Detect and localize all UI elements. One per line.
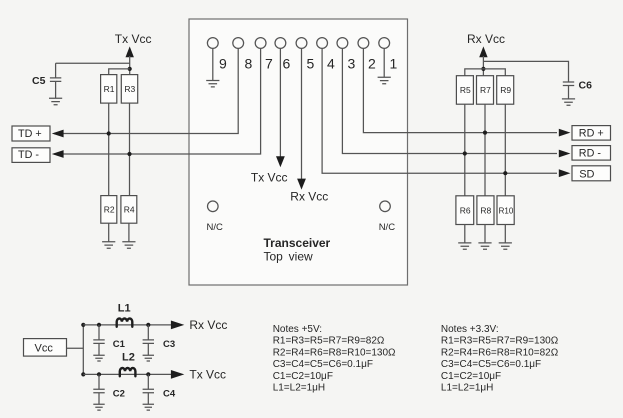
svg-text:9: 9 — [219, 56, 227, 72]
resistor R7 — [477, 76, 494, 105]
wire Rx rail — [83, 324, 172, 326]
svg-text:L1=L2=1μH: L1=L2=1μH — [273, 382, 325, 393]
pin 9 circle — [207, 38, 218, 49]
svg-text:C3: C3 — [163, 339, 175, 350]
wire Rx Vcc vertical — [482, 56, 484, 76]
port box RD- — [572, 146, 611, 161]
resistor R6 — [456, 196, 474, 225]
svg-text:RD +: RD + — [579, 128, 604, 140]
wire R2 to ground — [108, 223, 110, 242]
svg-text:C5: C5 — [32, 75, 46, 87]
svg-text:R2: R2 — [104, 205, 115, 215]
svg-text:Tx Vcc: Tx Vcc — [189, 367, 226, 381]
arrow Rx Vcc out — [171, 321, 184, 330]
wire R1 to R2 — [108, 103, 110, 196]
inductor L2 — [120, 368, 136, 376]
svg-text:3: 3 — [348, 56, 356, 72]
arrow into RD- — [559, 150, 571, 158]
svg-text:1: 1 — [390, 56, 398, 72]
pin 4 circle — [317, 38, 328, 49]
capacitor C3 — [147, 325, 149, 340]
svg-text:R9: R9 — [500, 85, 511, 95]
svg-text:Rx Vcc: Rx Vcc — [189, 318, 227, 332]
port box SD — [572, 166, 611, 181]
svg-text:R2=R4=R6=R8=R10=82Ω: R2=R4=R6=R8=R10=82Ω — [441, 347, 559, 358]
pin 8 circle — [233, 38, 244, 49]
capacitor C2 — [98, 374, 100, 389]
svg-text:Top view: Top view — [264, 249, 314, 263]
wire pin 3 to RD- — [342, 48, 557, 153]
svg-text:Tx Vcc: Tx Vcc — [115, 32, 152, 46]
port box TD+ — [12, 126, 50, 141]
svg-text:TD +: TD + — [18, 128, 42, 140]
port box TD- — [12, 148, 50, 163]
svg-text:R10: R10 — [499, 206, 514, 215]
node junction right — [481, 67, 485, 71]
pin 3 circle — [337, 38, 348, 49]
svg-text:C2: C2 — [113, 388, 125, 399]
svg-text:TD -: TD - — [18, 149, 39, 161]
inductor L1 — [117, 318, 133, 326]
svg-text:5: 5 — [307, 56, 315, 72]
pin 1 wire — [383, 48, 385, 77]
wire R5 to R6 — [464, 104, 466, 196]
wire R4 to ground — [128, 223, 130, 242]
notes +5V block — [273, 324, 396, 393]
pin 2 circle — [358, 38, 369, 49]
svg-text:R1=R3=R5=R7=R9=130Ω: R1=R3=R5=R7=R9=130Ω — [441, 336, 559, 347]
node C1 tap — [97, 323, 101, 327]
wire R8 to ground — [484, 225, 486, 243]
svg-text:C1: C1 — [113, 339, 126, 350]
svg-text:L2: L2 — [122, 352, 135, 364]
node trunk top — [81, 323, 85, 327]
node R1 TD+ — [107, 131, 111, 135]
wire stub R5 R9 — [465, 69, 506, 76]
wire R6 to ground — [464, 225, 466, 243]
wire Tx Vcc vertical — [129, 56, 131, 75]
node junction left — [128, 67, 132, 71]
wire trunk — [82, 325, 84, 375]
N/C circle right — [380, 201, 391, 212]
wire R10 to ground — [504, 225, 506, 243]
node trunk bottom — [81, 372, 85, 376]
svg-text:R6: R6 — [460, 205, 471, 215]
arrow Tx Vcc out — [171, 370, 184, 379]
svg-text:6: 6 — [283, 56, 291, 72]
capacitor C1 — [98, 325, 100, 340]
arrow up Rx Vcc — [479, 46, 487, 57]
node R9 SD — [503, 171, 507, 175]
svg-text:N/C: N/C — [379, 222, 396, 233]
svg-text:R7: R7 — [480, 85, 491, 95]
wire C5 to Tx Vcc — [56, 62, 130, 64]
resistor R4 — [121, 196, 137, 224]
node R5 RD- — [463, 151, 467, 155]
wire pin 4 to SD — [322, 48, 557, 173]
resistor R9 — [497, 76, 514, 105]
transceiver box U1 — [189, 19, 408, 285]
svg-text:8: 8 — [245, 56, 253, 72]
wire stub to R1 — [109, 69, 130, 75]
resistor R8 — [477, 196, 494, 225]
svg-text:7: 7 — [265, 56, 273, 72]
wire R9 to R10 — [504, 104, 506, 196]
pin 6 circle — [275, 38, 286, 49]
svg-text:C6: C6 — [579, 80, 593, 92]
node R7 RD+ — [483, 131, 487, 135]
ground at C5 — [49, 98, 62, 104]
svg-text:C1=C2=10μF: C1=C2=10μF — [441, 371, 501, 382]
pin 7 circle — [255, 38, 266, 49]
svg-text:2: 2 — [368, 56, 376, 72]
arrow into RD+ — [559, 129, 571, 137]
svg-text:R1: R1 — [104, 84, 115, 94]
resistor R10 — [497, 196, 514, 225]
svg-text:RD -: RD - — [579, 148, 602, 160]
capacitor C4 — [147, 374, 149, 389]
svg-text:4: 4 — [327, 56, 335, 72]
wire pin 6 — [279, 48, 281, 156]
wire Vcc to trunk — [67, 347, 84, 349]
svg-text:C1=C2=10μF: C1=C2=10μF — [273, 371, 333, 382]
svg-text:Notes +3.3V:: Notes +3.3V: — [441, 324, 499, 335]
node R3 TD- — [127, 152, 131, 156]
port box Vcc — [24, 339, 67, 357]
ground at R6 — [458, 243, 471, 249]
arrow into SD — [559, 169, 571, 177]
svg-text:C3=C4=C5=C6=0.1μF: C3=C4=C5=C6=0.1μF — [273, 359, 373, 370]
svg-text:Notes +5V:: Notes +5V: — [273, 324, 322, 335]
ground at R8 — [478, 243, 491, 249]
wire pin 7 to TD- — [54, 48, 261, 154]
ground at R4 — [122, 242, 135, 248]
svg-text:N/C: N/C — [207, 222, 224, 233]
svg-text:Vcc: Vcc — [35, 342, 54, 354]
arrow into TD- — [52, 150, 64, 158]
ground at R10 — [499, 243, 512, 249]
svg-text:Tx Vcc: Tx Vcc — [251, 171, 288, 185]
svg-text:R8: R8 — [480, 205, 491, 215]
arrow down Tx Vcc — [276, 156, 285, 167]
svg-text:R4: R4 — [124, 205, 135, 215]
svg-text:Rx Vcc: Rx Vcc — [467, 32, 505, 46]
capacitor C5 — [55, 63, 57, 78]
svg-text:C3=C4=C5=C6=0.1μF: C3=C4=C5=C6=0.1μF — [441, 359, 541, 370]
arrow into TD+ — [52, 130, 64, 138]
resistor R5 — [456, 76, 473, 105]
ground at pin 1 — [378, 77, 391, 83]
resistor R2 — [101, 196, 117, 224]
svg-text:C4: C4 — [163, 388, 176, 399]
node C2 tap — [97, 372, 101, 376]
svg-text:L1: L1 — [118, 303, 131, 315]
ground at R2 — [102, 242, 115, 248]
port box RD+ — [572, 126, 611, 141]
resistor R3 — [121, 75, 137, 104]
wire R7 to R8 — [484, 104, 486, 196]
wire pin 2 to RD+ — [363, 48, 557, 132]
wire pin 5 — [301, 48, 303, 179]
ground at C6 — [562, 99, 575, 105]
pin 9 wire — [212, 48, 214, 80]
pin 5 circle — [296, 38, 307, 49]
svg-text:Transceiver: Transceiver — [264, 236, 331, 250]
node C4 tap — [146, 372, 150, 376]
svg-text:Rx Vcc: Rx Vcc — [290, 190, 328, 204]
notes +3.3V block — [441, 324, 559, 393]
svg-text:R1=R3=R5=R7=R9=82Ω: R1=R3=R5=R7=R9=82Ω — [273, 336, 385, 347]
svg-text:R2=R4=R6=R8=R10=130Ω: R2=R4=R6=R8=R10=130Ω — [273, 347, 396, 358]
N/C circle left — [208, 201, 219, 212]
arrow up Tx Vcc — [126, 46, 134, 57]
wire R3 to R4 — [129, 103, 131, 196]
svg-text:R5: R5 — [460, 85, 471, 95]
svg-text:R3: R3 — [124, 84, 135, 94]
wire Tx rail — [83, 373, 172, 375]
ground at pin 9 — [206, 81, 219, 87]
pin 1 circle — [379, 38, 390, 49]
capacitor C6 — [563, 82, 574, 86]
resistor R1 — [101, 75, 117, 104]
node C3 tap — [146, 323, 150, 327]
wire to C6 — [483, 61, 568, 82]
svg-text:L1=L2=1μH: L1=L2=1μH — [441, 382, 493, 393]
wire pin 8 to TD+ — [54, 48, 238, 133]
svg-text:SD: SD — [579, 168, 594, 180]
arrow down Rx Vcc — [297, 179, 306, 190]
